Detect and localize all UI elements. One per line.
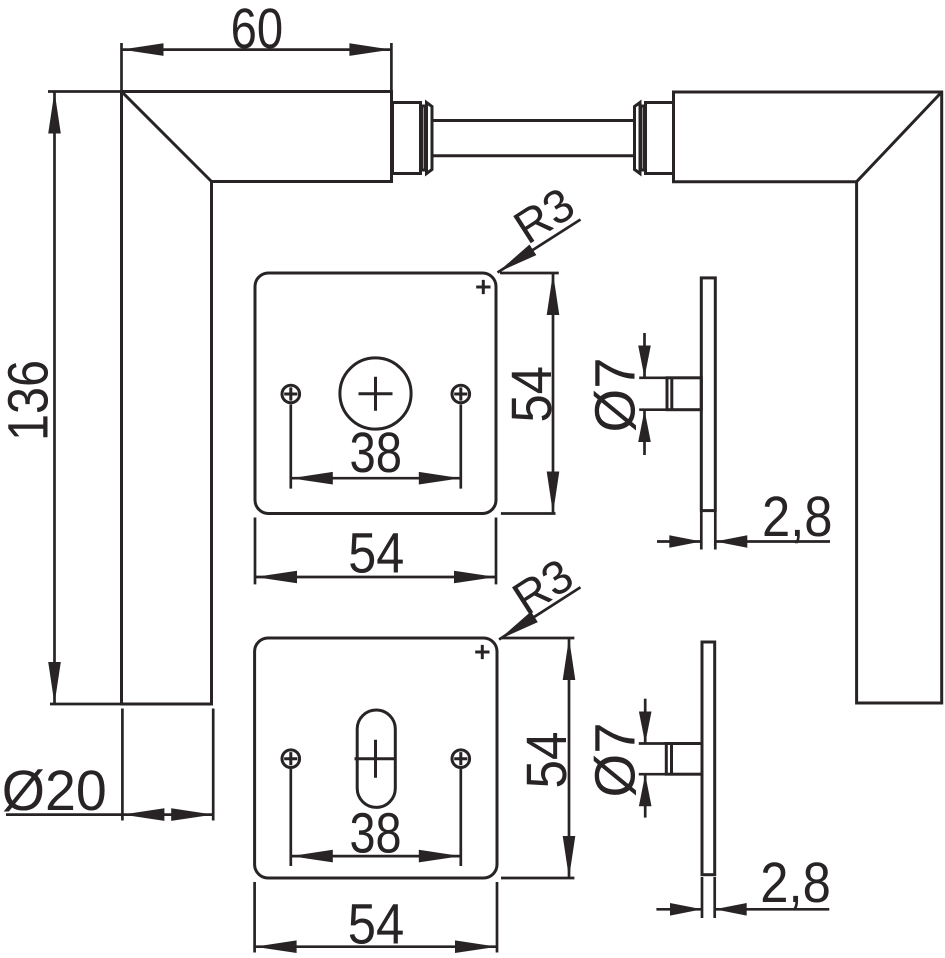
dim 136 line <box>53 92 56 705</box>
svg-text:2,8: 2,8 <box>760 851 831 915</box>
side view 2 O7 arrow lower <box>639 774 652 806</box>
dim 60 line <box>122 48 392 51</box>
rosette 2 center cross <box>355 740 397 778</box>
dim 60 extension line right <box>390 43 393 103</box>
rosette 1 corner plus mark <box>476 280 490 294</box>
dim 136 arrow bottom <box>48 662 61 704</box>
side view 2 O7 dim line upper <box>644 699 647 744</box>
rosette 1 dim 54 bottom arrow right <box>454 571 496 584</box>
side view 1 O7 extension lines <box>639 378 666 410</box>
left handle lever outline <box>122 92 392 705</box>
rosette 1 dim 54 bottom line <box>255 576 496 579</box>
rosette 2 screw hole right cross <box>454 752 467 765</box>
svg-text:54: 54 <box>500 366 564 423</box>
left neck chamfer ring <box>427 103 433 174</box>
side view 2 dim 2,8 line left <box>656 908 702 911</box>
left neck ring <box>422 106 426 170</box>
rosette 2 dim 38 extension lines <box>291 769 461 866</box>
dim O20 extension line left <box>121 709 124 821</box>
rosette 2 dim 54 right arrow bottom <box>563 836 576 878</box>
side view 1 screw stub <box>667 378 701 410</box>
svg-text:Ø7: Ø7 <box>584 358 648 433</box>
side view 2 plate <box>702 642 715 875</box>
rosette 1 R3 leader arrow <box>498 245 537 273</box>
dim 136 bottom extension line <box>50 703 213 706</box>
rosette 2 dim 38 arrow right <box>419 850 461 863</box>
rosette 2 dim 54 right arrow top <box>563 638 576 680</box>
dim O20 arrow left <box>122 808 164 821</box>
rosette 1 screw hole right <box>452 385 470 403</box>
svg-text:54: 54 <box>515 732 579 789</box>
svg-text:136: 136 <box>0 360 61 441</box>
rosette 1 center cross <box>359 377 393 411</box>
svg-text:R3: R3 <box>503 548 582 625</box>
side view 2 stub inner line <box>670 744 673 775</box>
dim O20 arrow right <box>171 808 213 821</box>
rosette 2 dim 54 bottom line <box>255 945 497 948</box>
spindle bottom line <box>432 154 635 157</box>
dim 60 extension line left <box>120 43 123 92</box>
right neck chamfer ring <box>635 103 641 174</box>
rosette 2 keyhole slot <box>357 710 395 807</box>
side view 1 O7 dim line upper <box>643 333 646 378</box>
side view 1 dim 2,8 extension lines <box>701 512 715 550</box>
side view 2 O7 dim line lower <box>644 774 647 817</box>
rosette 2 dim 54 bottom extension lines <box>255 882 497 953</box>
dim 136 top extension line <box>48 90 122 93</box>
rosette 1 center hole circle <box>340 358 411 429</box>
right neck collar <box>646 103 674 174</box>
side view 1 O7 arrow lower <box>638 410 651 442</box>
side view 1 dim 2,8 arrow right <box>715 535 747 548</box>
rosette 2 R3 leader line <box>499 587 581 639</box>
svg-text:R3: R3 <box>504 177 583 254</box>
rosette 2 screw hole left cross <box>284 752 297 765</box>
rosette 2 dim 38 arrow left <box>291 850 333 863</box>
right handle miter line <box>857 92 942 182</box>
side view 1 O7 dim line lower <box>643 410 646 455</box>
spindle top line <box>432 119 635 122</box>
rosette 1 dim 54 right extension lines <box>500 273 559 514</box>
svg-text:Ø20: Ø20 <box>2 759 107 823</box>
svg-text:54: 54 <box>348 522 404 586</box>
rosette 1 screw hole right cross <box>454 387 467 400</box>
rosette 2 R3 leader arrow <box>499 612 538 640</box>
left handle miter line <box>122 92 212 182</box>
svg-text:2,8: 2,8 <box>762 485 833 549</box>
rosette 2 dim 54 bottom arrow right <box>455 940 497 953</box>
rosette 2 dim 54 right line <box>568 638 571 878</box>
dim 60 arrow left <box>122 43 164 56</box>
side view 1 plate <box>701 278 715 511</box>
svg-text:60: 60 <box>231 0 284 61</box>
svg-text:54: 54 <box>348 893 405 957</box>
dim O20 line <box>6 813 213 816</box>
dim 60 arrow right <box>349 43 391 56</box>
rosette 1 dim 54 right arrow bottom <box>547 472 560 514</box>
rosette 1 dim 54 bottom arrow left <box>255 571 297 584</box>
rosette 1 plate <box>255 273 496 514</box>
dim O20 extension line right <box>212 709 215 821</box>
right handle lever outline <box>674 92 942 703</box>
side view 2 dim 2,8 line right <box>715 908 830 911</box>
rosette 1 screw hole left cross <box>284 387 297 400</box>
side view 2 O7 extension lines <box>639 744 667 775</box>
side view 2 dim 2,8 arrow right <box>715 903 747 916</box>
rosette 2 dim 54 bottom arrow left <box>255 940 297 953</box>
left neck collar <box>393 103 421 174</box>
rosette 1 dim 38 arrow right <box>419 472 461 485</box>
rosette 2 dim 54 right extension lines <box>501 638 574 878</box>
rosette 1 screw hole left <box>282 385 300 403</box>
rosette 2 dim 38 line <box>291 855 461 858</box>
side view 2 dim 2,8 extension lines <box>702 877 715 918</box>
side view 1 O7 arrow upper <box>638 346 651 378</box>
side view 1 stub inner line <box>670 378 673 410</box>
side view 1 dim 2,8 line left <box>657 540 701 543</box>
side view 2 O7 arrow upper <box>639 712 652 744</box>
svg-text:38: 38 <box>350 421 403 485</box>
rosette 1 R3 leader line <box>498 220 581 273</box>
right neck ring <box>641 106 645 170</box>
rosette 2 corner plus mark <box>475 645 489 659</box>
side view 1 dim 2,8 line right <box>715 540 830 543</box>
rosette 1 dim 38 arrow left <box>291 472 333 485</box>
side view 2 dim 2,8 arrow left <box>670 903 702 916</box>
rosette 1 dim 54 bottom extension lines <box>255 518 496 585</box>
side view 1 dim 2,8 arrow left <box>669 535 701 548</box>
rosette 1 dim 54 right arrow top <box>547 273 560 315</box>
svg-text:38: 38 <box>350 802 402 866</box>
rosette 1 dim 38 extension lines <box>291 405 461 489</box>
rosette 1 dim 38 line <box>291 477 461 480</box>
rosette 1 dim 54 right line <box>552 273 555 514</box>
side view 2 screw stub <box>666 744 702 775</box>
dim 136 arrow top <box>48 92 61 134</box>
rosette 2 plate <box>255 638 497 878</box>
rosette 2 screw hole right <box>452 750 470 768</box>
svg-text:Ø7: Ø7 <box>584 723 648 798</box>
rosette 2 screw hole left <box>282 750 300 768</box>
